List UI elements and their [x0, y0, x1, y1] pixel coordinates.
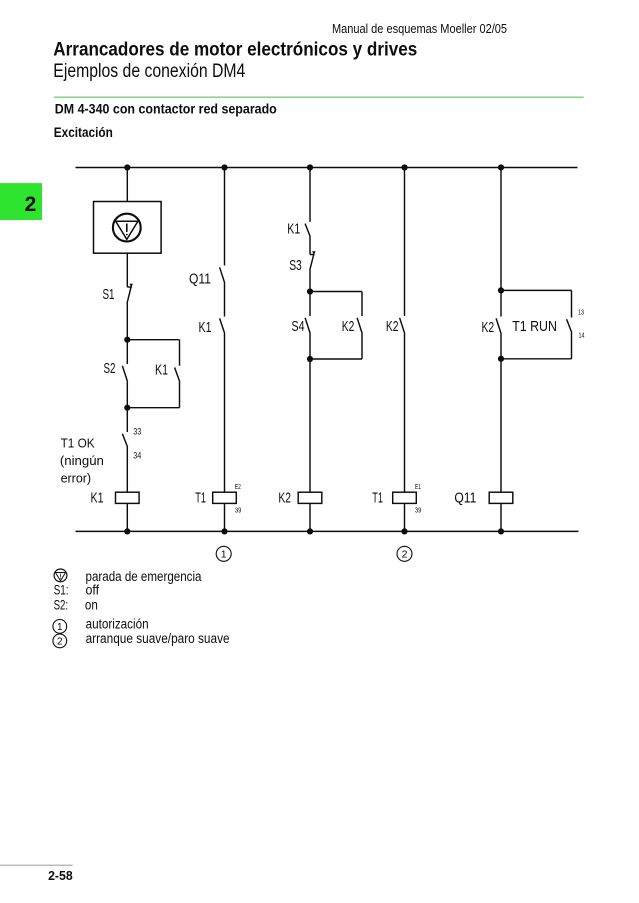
wire branch node C to K2 contact (top horizontal) [310, 291, 362, 293]
node marker 2 under schematic (circled 2) [397, 546, 412, 561]
auxiliary contact K2 (NO, parallel to S4) [357, 318, 362, 334]
svg-text:S3: S3 [289, 257, 302, 274]
wire c5: bus to node E [500, 168, 502, 291]
svg-text:T1 OK: T1 OK [61, 435, 95, 450]
svg-text:K2: K2 [386, 318, 399, 335]
wire c2: K1 contact to T1 coil [224, 334, 226, 493]
wire c1: bus to emergency-stop box [126, 168, 128, 202]
svg-text:39: 39 [415, 507, 422, 514]
svg-text:Q11: Q11 [189, 270, 211, 287]
wire c3: bus to K1 contact [309, 168, 311, 222]
node node E (junction dot) [498, 287, 504, 293]
svg-text:13: 13 [578, 308, 584, 317]
node top bus-c1 (junction dot) [124, 164, 130, 170]
wire c2: T1 coil to bottom bus [224, 503, 226, 531]
svg-text:(ningún: (ningún [60, 453, 104, 468]
svg-text:2: 2 [25, 193, 37, 216]
svg-text:39: 39 [235, 507, 242, 514]
node top bus-c5 (junction dot) [498, 164, 504, 170]
node marker 1 under schematic (circled 1) [216, 546, 231, 561]
wire c2: Q11 to K1 contact [224, 283, 226, 317]
svg-text:parada de emergencia: parada de emergencia [86, 569, 202, 584]
node bottom bus-c1 (junction dot) [124, 528, 130, 534]
wire b3: K2 contact down [361, 334, 363, 360]
wire c3: node D to K2 coil [309, 359, 311, 492]
svg-text:2: 2 [402, 549, 408, 561]
svg-text:autorización: autorización [86, 617, 149, 632]
svg-text:K1: K1 [199, 319, 212, 336]
feedback contact T1 OK (NO, pins 33-34) [122, 434, 127, 447]
wire c3: S3 to node C [309, 270, 311, 292]
svg-text:T1 RUN: T1 RUN [512, 318, 557, 335]
svg-text:on: on [85, 598, 98, 613]
node node C (junction dot) [307, 288, 313, 294]
wire b5: T1 RUN contact down [571, 333, 573, 359]
svg-text:K1: K1 [287, 221, 300, 238]
wire c2: bus to Q11 contact [224, 168, 226, 266]
wire c3: K1 to S3 [309, 237, 311, 255]
wire top supply bus [76, 167, 578, 169]
coil softstarter enable coil T1 (E2/39) [213, 492, 237, 503]
wire c1: S2 to node B [126, 382, 128, 408]
svg-text:S4: S4 [292, 318, 305, 335]
wire c1: S1 to node A [126, 303, 128, 340]
svg-text:K2: K2 [278, 490, 291, 507]
svg-text:K2: K2 [482, 319, 495, 336]
svg-text:Arrancadores de motor electrón: Arrancadores de motor electrónicos y dri… [53, 38, 417, 60]
svg-text:Excitación: Excitación [54, 125, 113, 140]
svg-text:K1: K1 [91, 490, 104, 507]
svg-text:Ejemplos de conexión DM4: Ejemplos de conexión DM4 [53, 60, 245, 82]
wire c1: node A to S2 [126, 340, 128, 364]
svg-text:off: off [86, 582, 100, 597]
pushbutton S3 (NC) [310, 251, 316, 270]
wire c5: K2 contact to node F [500, 334, 502, 359]
green rule [54, 96, 584, 98]
wire b1: down to K1 contact [179, 340, 181, 366]
wire c5: node E to K2 contact [500, 290, 502, 316]
svg-text:2: 2 [57, 637, 63, 648]
contact Q11 (NO) [220, 267, 225, 283]
svg-text:S1: S1 [103, 286, 115, 303]
svg-text:error): error) [61, 471, 92, 486]
wire b1: K1 contact to bottom horizontal [179, 382, 181, 408]
pushbutton S2 (NO) [122, 366, 127, 382]
auxiliary contact K1 (NO, parallel to S2) [175, 368, 180, 382]
coil contactor coil K2 [298, 492, 322, 503]
coil contactor coil Q11 [489, 492, 513, 503]
svg-text:arranque suave/paro suave: arranque suave/paro suave [86, 631, 230, 646]
wire branch K2 back to node D (bottom horizontal) [310, 358, 362, 360]
svg-text:S1:: S1: [54, 582, 69, 597]
svg-text:E2: E2 [235, 484, 241, 491]
contact T1 RUN (NO, pins 13-14, parallel to K2) [567, 319, 572, 332]
svg-text:Manual de esquemas Moeller 02/: Manual de esquemas Moeller 02/05 [332, 22, 507, 36]
node top bus-c4 (junction dot) [401, 164, 407, 170]
node legend marker 1 (circled 1) [53, 620, 67, 634]
wire c4: bus to K2 contact [404, 168, 406, 317]
svg-text:DM 4-340 con contactor red sep: DM 4-340 con contactor red separado [55, 101, 277, 117]
wire c5: Q11 coil to bottom bus [500, 503, 502, 531]
contact K1 (NO, column 3) [305, 224, 310, 237]
node node D (junction dot) [307, 356, 313, 362]
contact K2 (NO, column 4) [400, 318, 405, 334]
svg-text:2-58: 2-58 [48, 869, 73, 883]
svg-text:1: 1 [57, 622, 63, 633]
node node B (junction dot) [124, 405, 130, 411]
contact K2 (NO, column 5) [496, 318, 501, 334]
node bottom bus-c2 (junction dot) [221, 528, 227, 534]
node bottom bus-c5 (junction dot) [498, 528, 504, 534]
svg-text:T1: T1 [372, 490, 383, 507]
wire c5: node F to Q11 coil [500, 359, 502, 492]
wire c3: S4 to node D [309, 334, 311, 360]
node legend marker 2 (circled 2) [53, 634, 67, 648]
wire branch T1 RUN back to node F (bottom horizontal) [501, 358, 572, 360]
wire c3: K2 coil to bottom bus [309, 503, 311, 531]
legend emergency-stop symbol (emergency-stop symbol: circle + inverted triangle + !) [54, 569, 67, 582]
node node A (junction dot) [124, 337, 130, 343]
svg-text:34: 34 [133, 450, 141, 460]
svg-text:S2:: S2: [54, 598, 69, 613]
wire c4: K2 contact to T1 coil [404, 334, 406, 493]
pushbutton S1 (NC) [127, 284, 133, 303]
wire b5: down to T1 RUN contact [571, 290, 573, 317]
wire bottom return bus [76, 530, 579, 532]
wire c1: box to S1 [126, 253, 128, 287]
node bottom bus-c3 (junction dot) [307, 528, 313, 534]
wire c1: node B to T1-OK contact [126, 408, 128, 432]
node top bus-c3 (junction dot) [307, 164, 313, 170]
node bottom bus-c4 (junction dot) [401, 528, 407, 534]
svg-text:E1: E1 [415, 484, 421, 491]
svg-text:Q11: Q11 [454, 490, 476, 507]
wire branch node E to T1 RUN contact (top horizontal) [501, 289, 572, 291]
emergency-stop device box [94, 202, 162, 254]
node node F (junction dot) [498, 356, 504, 362]
wire b3: down to K2 contact [361, 292, 363, 317]
svg-text:1: 1 [221, 549, 227, 561]
wire c3: node C to S4 [309, 292, 311, 317]
annotation T1 OK (ningún error) [60, 435, 104, 485]
footer rule [0, 865, 73, 866]
wire c1: contact to K1 coil [126, 447, 128, 492]
wire c4: T1 coil to bottom bus [404, 503, 406, 531]
node top bus-c2 (junction dot) [221, 164, 227, 170]
coil contactor coil K1 [116, 492, 140, 503]
wire c1: K1 coil to bottom bus [126, 503, 128, 531]
pushbutton S4 (NO) [305, 318, 310, 334]
emergency-stop symbol in box (emergency-stop symbol: circle + inverted triangle + !) [113, 214, 141, 242]
svg-text:S2: S2 [104, 360, 116, 377]
svg-text:K1: K1 [155, 362, 168, 379]
svg-text:T1: T1 [195, 490, 206, 507]
svg-text:K2: K2 [342, 318, 355, 335]
coil softstarter enable coil T1 (E1/39) [393, 492, 417, 503]
wire branch K1 back to node B (bottom horizontal) [127, 407, 179, 409]
svg-text:14: 14 [579, 331, 585, 340]
chapter tab 2 (green) [0, 183, 42, 220]
wire branch node A to K1 contact (top horizontal) [127, 339, 179, 341]
svg-text:33: 33 [133, 426, 141, 436]
contact K1 (NO, column 2) [220, 318, 225, 333]
